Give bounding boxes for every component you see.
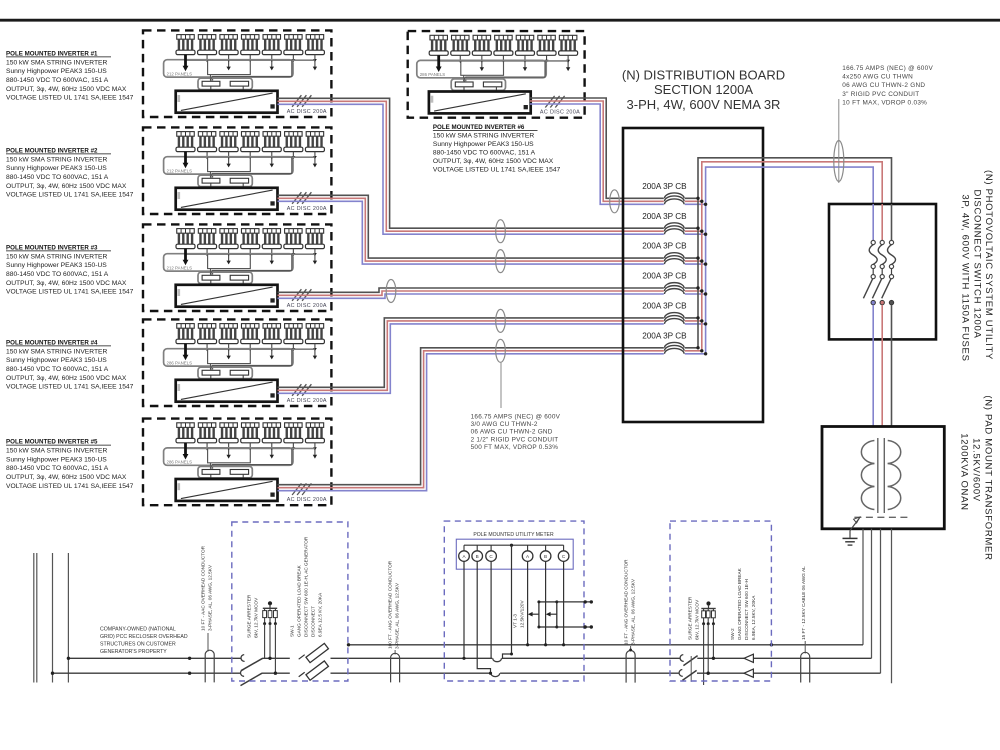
board bus bar phase A (black) <box>698 158 892 348</box>
PV array group 1 (inverter #4) <box>176 324 195 352</box>
svg-text:500 FT MAX, VDROP 0.53%: 500 FT MAX, VDROP 0.53% <box>471 444 559 451</box>
svg-text:15 FT - 12.5KV CABLE 06 AWG AL: 15 FT - 12.5KV CABLE 06 AWG AL <box>801 566 806 640</box>
transformer secondary riser 1 <box>862 529 864 645</box>
DC collection bus line (inverter #3) <box>186 253 315 255</box>
svg-text:AC DISC 200A: AC DISC 200A <box>287 206 327 212</box>
svg-text:3-PH, 4W, 600V NEMA 3R: 3-PH, 4W, 600V NEMA 3R <box>627 97 781 112</box>
DC leads combiner to inverter (inverter #3) <box>211 280 243 285</box>
junction dots at pole taps <box>51 657 192 675</box>
main string feeder arrow (inverter #3) <box>183 249 189 266</box>
description text inverter #6 <box>433 124 561 174</box>
string tap arrow group 5 (inverter #6) <box>523 61 527 71</box>
voltage transformer VT 1-3 <box>528 600 593 629</box>
surge arrester SA-2 <box>701 601 715 685</box>
svg-text:212 PANELS: 212 PANELS <box>167 168 193 173</box>
distribution board enclosure <box>623 128 763 422</box>
insulator/cable marker at x=805.2 <box>801 652 810 682</box>
svg-text:6.9EA, 12.5KV, 20KA: 6.9EA, 12.5KV, 20KA <box>751 595 756 640</box>
svg-text:200A 3P CB: 200A 3P CB <box>642 182 687 191</box>
wire bundle inverter #5 to breaker CB6 <box>278 348 706 491</box>
svg-text:Sunny Highpower PEAK3 150-US: Sunny Highpower PEAK3 150-US <box>6 357 107 364</box>
utility pole risers (PCC) <box>34 553 69 683</box>
svg-text:10 FT - ANG OVERHEAD CONDUCTOR: 10 FT - ANG OVERHEAD CONDUCTOR <box>623 559 628 645</box>
svg-text:100 FT - ANG OVERHEAD CONDUCTO: 100 FT - ANG OVERHEAD CONDUCTOR <box>388 560 393 649</box>
meter element 4 <box>522 545 533 561</box>
PV array group 7 (inverter #3) <box>305 229 324 257</box>
svg-text:POLE MOUNTED INVERTER #4: POLE MOUNTED INVERTER #4 <box>6 339 98 346</box>
string jumper wire A (inverter #3) <box>208 254 251 268</box>
PV array group 6 (inverter #5) <box>284 423 303 451</box>
rotated label VT 1-3 <box>513 600 525 628</box>
PV array group 3 (inverter #5) <box>219 423 238 451</box>
svg-text:VOLTAGE LISTED UL 1741 SA,IEEE: VOLTAGE LISTED UL 1741 SA,IEEE 1547 <box>6 289 134 296</box>
SW-2 blade (upper bus) <box>683 656 697 666</box>
svg-text:Sunny Highpower PEAK3 150-US: Sunny Highpower PEAK3 150-US <box>6 262 107 269</box>
overhead conductor bus phase upper (segment left) <box>68 657 240 659</box>
svg-text:OUTPUT, 3φ, 4W, 60Hz 1500 VDC: OUTPUT, 3φ, 4W, 60Hz 1500 VDC MAX <box>6 86 127 93</box>
bus segment between SW-1 blade and interrupter (lower) <box>262 672 290 674</box>
svg-text:880-1450 VDC TO 600VAC, 151 A: 880-1450 VDC TO 600VAC, 151 A <box>6 366 109 373</box>
svg-text:OUTPUT, 3φ, 4W, 60Hz 1500 VDC: OUTPUT, 3φ, 4W, 60Hz 1500 VDC MAX <box>6 183 127 190</box>
inverter unit #2 (150 kW SMA) <box>176 188 278 210</box>
distribution board title text <box>622 68 785 113</box>
PV array group 1 (inverter #3) <box>176 229 195 257</box>
svg-text:150 kW SMA STRING INVERTER: 150 kW SMA STRING INVERTER <box>6 448 107 455</box>
svg-text:150 kW SMA STRING INVERTER: 150 kW SMA STRING INVERTER <box>433 133 534 140</box>
conduit marker ellipse (disconnect feeder) <box>834 141 844 182</box>
PV array group 4 (inverter #2) <box>241 132 260 160</box>
svg-text:150 kW SMA STRING INVERTER: 150 kW SMA STRING INVERTER <box>6 253 107 260</box>
note: company owned PCC recloser <box>100 627 188 656</box>
breaker CB3 200A 3P <box>642 242 707 268</box>
svg-text:POLE MOUNTED INVERTER #2: POLE MOUNTED INVERTER #2 <box>6 147 98 154</box>
SW-1 jaw contact (lower bus) <box>240 670 244 677</box>
svg-text:POLE MOUNTED INVERTER #6: POLE MOUNTED INVERTER #6 <box>433 124 525 131</box>
SW-2 blade (lower bus) <box>682 670 696 680</box>
svg-text:880-1450 VDC TO 600VAC, 151 A: 880-1450 VDC TO 600VAC, 151 A <box>6 174 109 181</box>
SW-1 jaw contact (upper bus) <box>241 655 245 662</box>
PV array group 3 (inverter #3) <box>219 229 238 257</box>
svg-text:06 AWG CU THWN-2 GND: 06 AWG CU THWN-2 GND <box>842 82 925 89</box>
inverter unit #5 (150 kW SMA) <box>176 479 278 501</box>
PV array group 7 (inverter #1) <box>305 35 324 63</box>
meter element lead 3 <box>490 561 492 658</box>
inverter unit #3 (150 kW SMA) <box>176 285 278 307</box>
main string feeder arrow (inverter #2) <box>183 152 189 169</box>
conduit marker feeder to CB5 <box>496 309 506 332</box>
svg-text:150 kW SMA STRING INVERTER: 150 kW SMA STRING INVERTER <box>6 156 107 163</box>
svg-text:POLE MOUNTED INVERTER #5: POLE MOUNTED INVERTER #5 <box>6 439 98 446</box>
svg-text:286 PANELS: 286 PANELS <box>420 72 446 77</box>
svg-text:OUTPUT, 3φ, 4W, 60Hz 1500 VDC: OUTPUT, 3φ, 4W, 60Hz 1500 VDC MAX <box>433 158 554 165</box>
transformer primary winding <box>861 441 874 510</box>
DC leads combiner to inverter (inverter #5) <box>211 474 243 479</box>
DC leads combiner to inverter (inverter #6) <box>464 87 496 92</box>
conduit marker feeder to CB4 <box>386 280 396 303</box>
combiner entry drop (inverter #6) <box>463 75 465 81</box>
svg-text:Sunny Highpower PEAK3 150-US: Sunny Highpower PEAK3 150-US <box>6 68 107 75</box>
rotated label: pad mount transformer <box>959 395 994 560</box>
svg-text:GANG OPERATED LOAD BREAK: GANG OPERATED LOAD BREAK <box>737 567 742 640</box>
string jumper wire A (inverter #1) <box>208 60 251 74</box>
PV array group 3 (inverter #1) <box>219 35 238 63</box>
DC collection bus line (inverter #6) <box>439 60 568 62</box>
meter element 5 <box>540 545 551 561</box>
svg-text:B: B <box>544 554 547 559</box>
board bus bar phase C (blue) <box>706 167 874 354</box>
SW-1 blade (lower bus) <box>241 673 263 685</box>
svg-text:150 kW SMA STRING INVERTER: 150 kW SMA STRING INVERTER <box>6 348 107 355</box>
insulator/cable marker at x=630.6 <box>626 651 635 683</box>
svg-text:06 AWG CU THWN-2 GND: 06 AWG CU THWN-2 GND <box>471 429 553 436</box>
riser dot (right callout) <box>629 649 632 652</box>
transformer secondary winding <box>888 441 901 510</box>
svg-text:AC DISC 200A: AC DISC 200A <box>287 497 327 503</box>
PV array group 2 (inverter #5) <box>198 423 217 451</box>
overhead conductor bus upper (right segment to transformer) <box>697 657 871 659</box>
sheet border line top <box>0 19 1000 22</box>
svg-text:3P, 4W, 600V WITH 1150A FUSES: 3P, 4W, 600V WITH 1150A FUSES <box>960 194 971 361</box>
transformer ground connection <box>850 517 860 538</box>
svg-text:6kV, 12.7kV MCOV: 6kV, 12.7kV MCOV <box>695 599 700 640</box>
PV array group 4 (inverter #5) <box>241 423 260 451</box>
string tap arrow group 7 (inverter #1) <box>313 60 317 70</box>
PV array group 2 (inverter #2) <box>198 132 217 160</box>
breaker CB1 200A 3P <box>642 182 707 208</box>
DC collection bus line (inverter #5) <box>186 447 315 449</box>
overhead conductor bus lower (center segment) <box>331 672 679 674</box>
svg-text:3" RIGID PVC CONDUIT: 3" RIGID PVC CONDUIT <box>842 91 919 98</box>
svg-text:SURGE ARRESTER: SURGE ARRESTER <box>688 596 693 640</box>
svg-text:DISCONNECT SW 600 1E-H, AC GEN: DISCONNECT SW 600 1E-H, AC GENERATOR <box>304 536 309 637</box>
svg-text:1200KVA ONAN: 1200KVA ONAN <box>959 433 970 510</box>
svg-text:(N) PAD MOUNT TRANSFORMER: (N) PAD MOUNT TRANSFORMER <box>983 395 994 560</box>
AC disconnect switch 200A (inverter #6) <box>545 96 564 108</box>
rotated label: PV system utility disconnect switch <box>960 170 995 362</box>
MV cable bus (top, transformer feed) <box>349 644 864 646</box>
svg-text:Sunny Highpower PEAK3 150-US: Sunny Highpower PEAK3 150-US <box>433 141 534 148</box>
PV array group 6 (inverter #1) <box>284 35 303 63</box>
PV array group 5 (inverter #6) <box>515 35 534 63</box>
meter top tie line <box>464 544 564 547</box>
string tap arrow group 7 (inverter #2) <box>313 157 317 167</box>
string bus box "212 PANELS" (inverter #3) <box>164 254 293 271</box>
wire bundle inverter #1 to breaker CB2 <box>278 98 706 234</box>
disconnect pole phase B: fuse and blade <box>872 204 886 427</box>
inverter unit #6 (150 kW SMA) <box>429 92 531 114</box>
string tap arrow group 7 (inverter #4) <box>313 349 317 359</box>
transformer core <box>878 438 885 513</box>
PV array group 2 (inverter #6) <box>451 35 470 63</box>
string bus box "212 PANELS" (inverter #2) <box>164 157 293 174</box>
rotated label SW-1 gang operated switch <box>290 536 323 637</box>
inverter block #2 dashed enclosure <box>143 127 331 214</box>
string jumper wire B (inverter #5) <box>213 449 292 469</box>
PV array group 5 (inverter #2) <box>262 132 281 160</box>
pad mount transformer enclosure <box>822 427 944 529</box>
svg-text:COMPANY-OWNED (NATIONAL: COMPANY-OWNED (NATIONAL <box>100 627 176 633</box>
combiner entry drop (inverter #4) <box>210 364 212 370</box>
inverter unit #1 (150 kW SMA) <box>176 91 278 113</box>
svg-text:SW-1: SW-1 <box>290 625 295 637</box>
SW-1 load-break interrupter (lower bus) <box>299 659 329 685</box>
PV array group 7 (inverter #2) <box>305 132 324 160</box>
AC disconnect switch 200A (inverter #3) <box>292 289 311 301</box>
svg-text:3-PHASE, AL, 06 AWG, 12.5KV: 3-PHASE, AL, 06 AWG, 12.5KV <box>395 582 400 649</box>
dashed enclosure pole mounted utility meter <box>444 521 584 681</box>
svg-text:200A 3P CB: 200A 3P CB <box>642 272 687 281</box>
svg-text:286 PANELS: 286 PANELS <box>167 360 193 365</box>
svg-text:AC DISC 200A: AC DISC 200A <box>287 398 327 404</box>
svg-text:880-1450 VDC TO 600VAC, 151 A: 880-1450 VDC TO 600VAC, 151 A <box>6 271 109 278</box>
dashed enclosure SA-1 / SW-1 <box>232 522 348 681</box>
meter element lead 5 <box>544 561 547 646</box>
AC disconnect switch 200A (inverter #5) <box>292 483 311 495</box>
breaker CB2 200A 3P <box>642 212 707 238</box>
feeder conduit note text <box>471 414 561 451</box>
bus segment between SW-1 blade and interrupter (upper) <box>262 657 289 659</box>
DC collection bus line (inverter #2) <box>186 156 315 158</box>
meter neutral drop <box>503 545 514 658</box>
CT loop (lower bus) <box>491 672 501 674</box>
inverter block #5 dashed enclosure <box>143 419 331 506</box>
grid connection arrow (upper bus) <box>744 654 753 662</box>
string bus box "286 PANELS" (inverter #5) <box>164 448 293 465</box>
wire bundle inverter #2 to breaker CB3 <box>278 195 706 264</box>
callout: 100 FT ANG overhead conductor <box>388 560 400 654</box>
svg-text:VOLTAGE LISTED UL 1741 SA,IEEE: VOLTAGE LISTED UL 1741 SA,IEEE 1547 <box>6 483 134 490</box>
AC disconnect switch 200A (inverter #2) <box>292 192 311 204</box>
svg-text:B: B <box>476 554 479 559</box>
ground symbol (transformer) <box>843 538 858 545</box>
svg-text:3-PHASE, AL, 06 AWG, 12.5KV: 3-PHASE, AL, 06 AWG, 12.5KV <box>208 564 213 631</box>
string tap arrow group 7 (inverter #6) <box>566 61 570 71</box>
svg-text:166.75 AMPS (NEC) @ 600V: 166.75 AMPS (NEC) @ 600V <box>842 65 933 72</box>
string tap arrow group 7 (inverter #3) <box>313 254 317 264</box>
string bus box "286 PANELS" (inverter #6) <box>417 60 546 77</box>
PV array group 2 (inverter #1) <box>198 35 217 63</box>
main string feeder arrow (inverter #4) <box>183 344 189 361</box>
string tap arrow group 5 (inverter #2) <box>270 157 274 167</box>
main string feeder arrow (inverter #6) <box>436 55 442 72</box>
svg-text:6kV, 12.7kV MCOV: 6kV, 12.7kV MCOV <box>254 597 259 638</box>
PV utility disconnect switch enclosure <box>829 204 936 339</box>
string tap arrow group 5 (inverter #3) <box>270 254 274 264</box>
DC leads combiner to inverter (inverter #4) <box>211 375 243 380</box>
svg-text:200A 3P CB: 200A 3P CB <box>642 212 687 221</box>
board bus bar phase B (red) <box>702 162 882 351</box>
svg-text:AC DISC 200A: AC DISC 200A <box>287 303 327 309</box>
inverter block #4 dashed enclosure <box>143 319 331 406</box>
string tap arrow group 5 (inverter #4) <box>270 349 274 359</box>
svg-text:POLE MOUNTED INVERTER #3: POLE MOUNTED INVERTER #3 <box>6 244 98 251</box>
DC leads combiner to inverter (inverter #1) <box>211 86 243 91</box>
string jumper wire A (inverter #6) <box>461 61 504 75</box>
svg-text:12.5KV/120V: 12.5KV/120V <box>520 600 525 628</box>
svg-text:POLE MOUNTED INVERTER #1: POLE MOUNTED INVERTER #1 <box>6 50 98 57</box>
string tap arrow group 3 (inverter #4) <box>226 349 230 359</box>
PV array group 1 (inverter #5) <box>176 423 195 451</box>
inverter block #1 dashed enclosure <box>143 30 331 117</box>
svg-text:DISCONNECT SWITCH 1200A: DISCONNECT SWITCH 1200A <box>972 190 983 339</box>
conduit marker feeder to CB3 <box>496 250 506 273</box>
disconnect pole phase C: fuse and blade <box>863 204 877 427</box>
callout: 10 FT ANG overhead conductor (right) <box>623 559 635 652</box>
overhead conductor bus phase lower (segment left) <box>53 672 241 674</box>
meter group frame <box>456 539 573 569</box>
svg-text:3/0 AWG CU THWN-2: 3/0 AWG CU THWN-2 <box>471 421 538 428</box>
meter element lead 6 <box>562 561 565 646</box>
grid connection arrow (lower bus) <box>744 669 753 677</box>
svg-text:12.5KV/600V: 12.5KV/600V <box>971 438 982 502</box>
DC leads combiner to inverter (inverter #2) <box>211 183 243 188</box>
conduit callout leader line <box>838 99 840 183</box>
breaker CB6 200A 3P <box>642 331 707 357</box>
PV array group 1 (inverter #1) <box>176 35 195 63</box>
description text inverter #2 <box>6 147 134 198</box>
svg-text:286 PANELS: 286 PANELS <box>167 460 193 465</box>
string jumper wire B (inverter #6) <box>466 61 545 81</box>
svg-text:STRUCTURES ON CUSTOMER: STRUCTURES ON CUSTOMER <box>100 642 176 648</box>
svg-text:SW-2: SW-2 <box>730 628 735 640</box>
description text inverter #1 <box>6 50 134 101</box>
inverter block #3 dashed enclosure <box>143 224 331 311</box>
PV array group 5 (inverter #3) <box>262 229 281 257</box>
string jumper wire B (inverter #1) <box>213 60 292 80</box>
PV array group 2 (inverter #4) <box>198 324 217 352</box>
svg-text:Sunny Highpower PEAK3 150-US: Sunny Highpower PEAK3 150-US <box>6 456 107 463</box>
svg-text:3-PHASE, AL, 06 AWG, 12.5KV: 3-PHASE, AL, 06 AWG, 12.5KV <box>630 578 635 645</box>
wire bundle inverter #6 to breaker CB1 <box>530 98 706 204</box>
string jumper wire A (inverter #2) <box>208 157 251 171</box>
meter element lead 2 <box>477 561 492 674</box>
DC combiner box (inverter #5) <box>198 465 252 478</box>
breaker CB5 200A 3P <box>642 302 707 328</box>
svg-text:4x250 AWG CU THWN: 4x250 AWG CU THWN <box>842 74 913 81</box>
svg-text:DISCONNECT: DISCONNECT <box>311 606 316 637</box>
rotated label surge arrester SA-2 <box>688 596 700 640</box>
combiner entry drop (inverter #3) <box>210 269 212 275</box>
svg-text:GENERATOR'S PROPERTY: GENERATOR'S PROPERTY <box>100 649 167 655</box>
insulator/cable marker at x=209.7 <box>205 650 214 682</box>
SW-1 load-break interrupter (upper bus) <box>299 641 329 667</box>
svg-text:POLE MOUNTED UTILITY METER: POLE MOUNTED UTILITY METER <box>473 532 554 538</box>
svg-text:DISCONNECT SW 600 1E-H: DISCONNECT SW 600 1E-H <box>744 579 749 640</box>
PV array group 1 (inverter #6) <box>429 35 448 63</box>
PV array group 1 (inverter #2) <box>176 132 195 160</box>
AC disconnect switch 200A (inverter #1) <box>292 95 311 107</box>
string jumper wire A (inverter #5) <box>208 449 251 463</box>
svg-text:10 FT - AAC OVERHEAD CONDUCTOR: 10 FT - AAC OVERHEAD CONDUCTOR <box>201 545 206 631</box>
string jumper wire B (inverter #4) <box>213 349 292 369</box>
conduit marker feeder to CB1 <box>610 190 620 213</box>
meter element lead 4 <box>526 561 529 646</box>
meter element 2 <box>472 545 483 561</box>
string tap arrow group 5 (inverter #1) <box>270 60 274 70</box>
string tap arrow group 7 (inverter #5) <box>313 448 317 458</box>
inverter unit #4 (150 kW SMA) <box>176 380 278 402</box>
utility conduit note text (disconnect feeder) <box>842 65 933 106</box>
PV array group 6 (inverter #4) <box>284 324 303 352</box>
string tap arrow group 3 (inverter #3) <box>226 254 230 264</box>
PV array group 7 (inverter #4) <box>305 324 324 352</box>
svg-text:200A 3P CB: 200A 3P CB <box>642 242 687 251</box>
svg-text:Sunny Highpower PEAK3 150-US: Sunny Highpower PEAK3 150-US <box>6 165 107 172</box>
PV array group 4 (inverter #3) <box>241 229 260 257</box>
dashed enclosure SA-2 / SW-2 <box>670 521 771 681</box>
svg-text:VT 1-3: VT 1-3 <box>513 614 518 628</box>
PV array group 3 (inverter #4) <box>219 324 238 352</box>
DC combiner box (inverter #1) <box>198 77 252 90</box>
rotated label surge arrester SA-1 <box>247 594 259 638</box>
PV array group 4 (inverter #1) <box>241 35 260 63</box>
meter element 6 <box>558 545 569 561</box>
callout: 10 FT AAC overhead conductor (left) <box>201 545 213 651</box>
description text inverter #5 <box>6 439 134 490</box>
breaker CB4 200A 3P <box>642 272 707 298</box>
insulator/cable marker at x=395.1 <box>391 653 400 682</box>
svg-text:GANG OPERATED LOAD BREAK: GANG OPERATED LOAD BREAK <box>297 564 302 637</box>
PV array group 5 (inverter #5) <box>262 423 281 451</box>
PV array group 4 (inverter #4) <box>241 324 260 352</box>
string jumper wire A (inverter #4) <box>208 349 251 363</box>
combiner entry drop (inverter #1) <box>210 75 212 81</box>
wire bundle inverter #4 to breaker CB5 <box>278 318 706 393</box>
overhead conductor bus lower (right segment to transformer) <box>697 672 881 674</box>
PV array group 7 (inverter #5) <box>305 423 324 451</box>
PV array group 5 (inverter #1) <box>262 35 281 63</box>
PV array group 7 (inverter #6) <box>559 35 578 63</box>
svg-text:880-1450 VDC TO 600VAC, 151 A: 880-1450 VDC TO 600VAC, 151 A <box>6 77 109 84</box>
conduit marker feeder to CB2 <box>496 220 506 243</box>
svg-text:212 PANELS: 212 PANELS <box>167 71 193 76</box>
description text inverter #4 <box>6 339 134 390</box>
description text inverter #3 <box>6 244 134 295</box>
PV array group 6 (inverter #3) <box>284 229 303 257</box>
callout: 15 FT 12.5KV cable <box>801 566 806 654</box>
PV array group 6 (inverter #6) <box>537 35 556 63</box>
PV array group 3 (inverter #2) <box>219 132 238 160</box>
svg-text:VOLTAGE LISTED UL 1741 SA,IEEE: VOLTAGE LISTED UL 1741 SA,IEEE 1547 <box>433 167 561 174</box>
surge arrester SA-1 <box>263 601 278 675</box>
svg-text:6.9EA 12.5 KV, 20KA: 6.9EA 12.5 KV, 20KA <box>318 592 323 637</box>
combiner entry drop (inverter #5) <box>210 463 212 469</box>
svg-text:(N) PHOTOVOLTAIC SYSTEM UTILIT: (N) PHOTOVOLTAIC SYSTEM UTILITY <box>983 170 994 360</box>
transformer secondary riser 4 (neutral) <box>891 529 893 684</box>
svg-text:2 1/2" RIGID PVC CONDUIT: 2 1/2" RIGID PVC CONDUIT <box>471 436 559 443</box>
svg-text:(N) DISTRIBUTION BOARD: (N) DISTRIBUTION BOARD <box>622 68 785 83</box>
overhead conductor bus upper (center segment) <box>331 657 680 659</box>
string jumper wire B (inverter #3) <box>213 254 292 274</box>
PV array group 6 (inverter #2) <box>284 132 303 160</box>
SW-2 jaw contact (lower bus) <box>679 670 683 677</box>
svg-text:200A 3P CB: 200A 3P CB <box>642 331 687 340</box>
svg-text:OUTPUT, 3φ, 4W, 60Hz 1500 VDC: OUTPUT, 3φ, 4W, 60Hz 1500 VDC MAX <box>6 375 127 382</box>
svg-text:880-1450 VDC TO 600VAC, 151 A: 880-1450 VDC TO 600VAC, 151 A <box>433 150 536 157</box>
DC combiner box (inverter #4) <box>198 366 252 379</box>
svg-text:150 kW SMA STRING INVERTER: 150 kW SMA STRING INVERTER <box>6 59 107 66</box>
disconnect pole phase A: fuse and blade <box>882 204 896 427</box>
string jumper wire B (inverter #2) <box>213 157 292 177</box>
svg-text:166.75 AMPS (NEC) @ 600V: 166.75 AMPS (NEC) @ 600V <box>471 414 561 421</box>
SW-2 jaw contact (upper bus) <box>680 655 684 662</box>
DC combiner box (inverter #2) <box>198 174 252 186</box>
AC disconnect switch 200A (inverter #4) <box>292 384 311 396</box>
PV array group 4 (inverter #6) <box>494 35 513 63</box>
rotated label SW-2 gang operated switch <box>730 567 756 640</box>
transformer secondary riser 3 <box>880 529 882 673</box>
meter element 1 <box>459 545 470 561</box>
